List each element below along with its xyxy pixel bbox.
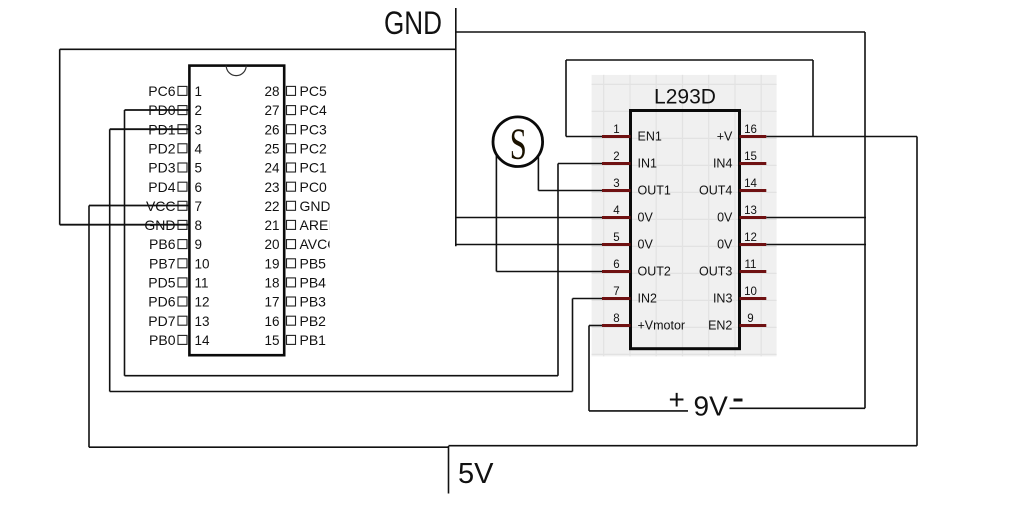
svg-text:23: 23 <box>264 180 279 195</box>
svg-text:0V: 0V <box>638 238 654 252</box>
svg-text:IN3: IN3 <box>713 292 733 306</box>
svg-text:5V: 5V <box>458 458 494 490</box>
svg-text:PC5: PC5 <box>300 83 327 99</box>
svg-text:+Vmotor: +Vmotor <box>638 319 686 333</box>
svg-text:IN1: IN1 <box>638 157 658 171</box>
svg-text:PD7: PD7 <box>148 313 175 329</box>
svg-text:16: 16 <box>264 314 279 329</box>
svg-text:PD0: PD0 <box>148 102 175 118</box>
svg-text:5: 5 <box>195 161 203 176</box>
svg-text:GND: GND <box>300 198 331 214</box>
svg-text:PB6: PB6 <box>149 236 176 252</box>
svg-text:10: 10 <box>744 286 757 298</box>
svg-text:PC6: PC6 <box>148 83 175 99</box>
svg-text:2: 2 <box>613 151 619 163</box>
svg-text:4: 4 <box>195 141 203 156</box>
svg-text:PC0: PC0 <box>300 179 327 195</box>
svg-text:S: S <box>510 120 527 169</box>
svg-text:22: 22 <box>264 199 279 214</box>
svg-text:4: 4 <box>613 205 620 217</box>
svg-text:PB1: PB1 <box>300 332 327 348</box>
svg-text:5: 5 <box>613 232 619 244</box>
svg-text:0V: 0V <box>638 211 654 225</box>
svg-text:21: 21 <box>264 218 279 233</box>
svg-text:20: 20 <box>264 237 279 252</box>
svg-text:6: 6 <box>195 180 203 195</box>
svg-text:PD5: PD5 <box>148 275 175 291</box>
svg-text:PB3: PB3 <box>300 294 327 310</box>
svg-text:3: 3 <box>195 122 203 137</box>
svg-text:GND: GND <box>144 217 175 233</box>
svg-text:15: 15 <box>264 333 279 348</box>
svg-text:IN2: IN2 <box>638 292 658 306</box>
svg-text:9: 9 <box>747 313 753 325</box>
svg-text:+V: +V <box>717 130 733 144</box>
svg-text:OUT4: OUT4 <box>699 184 732 198</box>
svg-text:PC1: PC1 <box>300 160 327 176</box>
svg-text:PD4: PD4 <box>148 179 175 195</box>
svg-text:PD3: PD3 <box>148 160 175 176</box>
svg-text:OUT2: OUT2 <box>638 265 671 279</box>
svg-text:27: 27 <box>264 103 279 118</box>
svg-text:PD6: PD6 <box>148 294 175 310</box>
svg-text:8: 8 <box>195 218 203 233</box>
svg-text:11: 11 <box>745 259 757 271</box>
svg-text:9V: 9V <box>694 391 729 422</box>
svg-text:VCC: VCC <box>146 198 176 214</box>
svg-text:24: 24 <box>264 161 280 176</box>
svg-text:28: 28 <box>264 84 279 99</box>
svg-text:26: 26 <box>264 122 279 137</box>
svg-text:OUT1: OUT1 <box>638 184 671 198</box>
svg-text:OUT3: OUT3 <box>699 265 732 279</box>
svg-text:7: 7 <box>195 199 203 214</box>
svg-text:0V: 0V <box>717 211 733 225</box>
svg-text:EN2: EN2 <box>708 319 732 333</box>
svg-text:12: 12 <box>195 295 210 310</box>
svg-text:GND: GND <box>384 5 442 41</box>
svg-text:PD1: PD1 <box>148 121 175 137</box>
svg-text:IN4: IN4 <box>713 157 733 171</box>
svg-text:15: 15 <box>744 151 757 163</box>
svg-text:PC2: PC2 <box>300 140 327 156</box>
svg-text:10: 10 <box>195 256 210 271</box>
svg-text:18: 18 <box>264 276 279 291</box>
svg-text:19: 19 <box>264 256 279 271</box>
svg-text:L293D: L293D <box>654 86 716 109</box>
svg-text:2: 2 <box>195 103 203 118</box>
svg-text:9: 9 <box>195 237 203 252</box>
svg-text:7: 7 <box>613 286 619 298</box>
svg-text:PB0: PB0 <box>149 332 176 348</box>
svg-text:+: + <box>669 384 685 415</box>
svg-text:EN1: EN1 <box>638 130 662 144</box>
svg-text:11: 11 <box>195 276 209 291</box>
svg-text:13: 13 <box>744 205 757 217</box>
svg-text:25: 25 <box>264 141 279 156</box>
svg-text:6: 6 <box>613 259 619 271</box>
svg-text:13: 13 <box>195 314 210 329</box>
svg-text:PC4: PC4 <box>300 102 327 118</box>
svg-text:PB2: PB2 <box>300 313 327 329</box>
svg-text:3: 3 <box>613 178 619 190</box>
svg-text:8: 8 <box>613 313 619 325</box>
svg-text:16: 16 <box>744 124 757 136</box>
svg-text:17: 17 <box>264 295 279 310</box>
svg-text:0V: 0V <box>717 238 733 252</box>
svg-text:1: 1 <box>613 124 619 136</box>
svg-text:PB5: PB5 <box>300 255 327 271</box>
svg-text:14: 14 <box>744 178 757 190</box>
svg-text:12: 12 <box>744 232 757 244</box>
svg-text:PD2: PD2 <box>148 140 175 156</box>
svg-text:PB7: PB7 <box>149 255 176 271</box>
svg-text:PB4: PB4 <box>300 275 327 291</box>
svg-text:PC3: PC3 <box>300 121 327 137</box>
svg-text:1: 1 <box>195 84 203 99</box>
svg-text:14: 14 <box>195 333 211 348</box>
